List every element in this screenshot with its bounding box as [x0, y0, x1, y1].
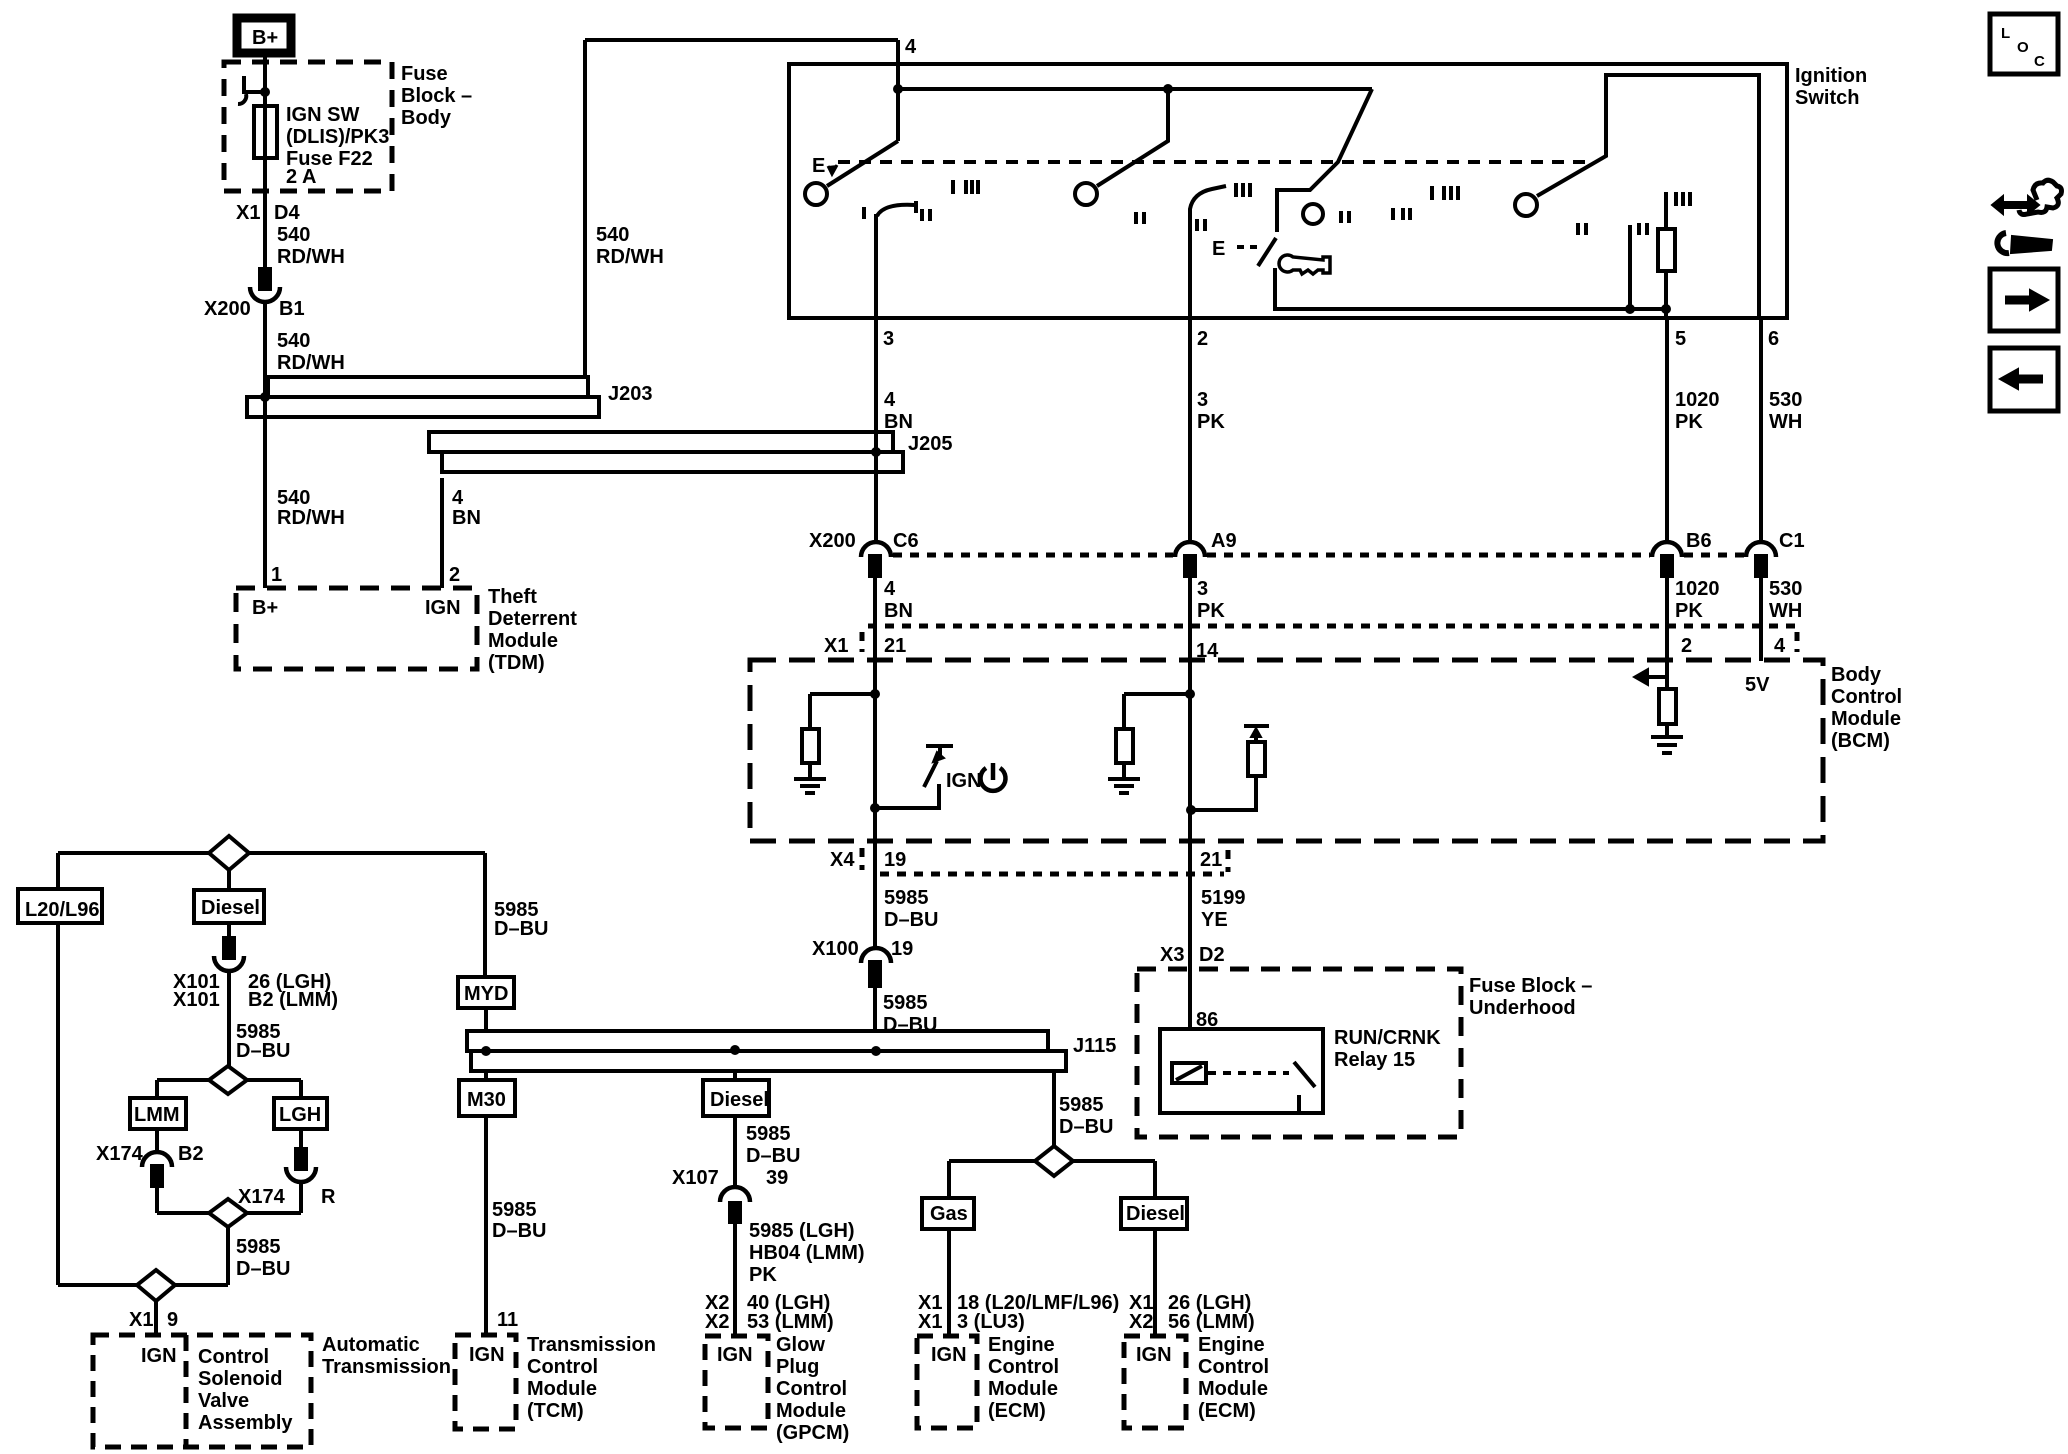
svg-text:2: 2	[449, 564, 460, 586]
svg-text:R: R	[321, 1186, 336, 1208]
svg-text:D–BU: D–BU	[883, 1014, 937, 1036]
svg-text:IGN: IGN	[141, 1345, 177, 1367]
svg-text:Theft: Theft	[488, 586, 537, 608]
svg-text:B1: B1	[279, 298, 305, 320]
svg-text:PK: PK	[1197, 411, 1225, 433]
svg-text:(TDM): (TDM)	[488, 652, 545, 674]
svg-text:Module: Module	[776, 1400, 846, 1422]
svg-text:21: 21	[884, 635, 906, 657]
svg-text:Deterrent: Deterrent	[488, 608, 577, 630]
svg-text:WH: WH	[1769, 600, 1802, 622]
svg-text:Relay 15: Relay 15	[1334, 1049, 1415, 1071]
svg-text:E: E	[1212, 238, 1225, 260]
svg-text:3: 3	[1197, 578, 1208, 600]
svg-text:Fuse Block –: Fuse Block –	[1469, 975, 1592, 997]
svg-text:39: 39	[766, 1167, 788, 1189]
svg-text:5985: 5985	[492, 1199, 537, 1221]
svg-text:Module: Module	[988, 1378, 1058, 1400]
svg-text:Module: Module	[527, 1378, 597, 1400]
svg-text:RD/WH: RD/WH	[596, 246, 664, 268]
svg-text:J203: J203	[608, 383, 653, 405]
svg-text:X101: X101	[173, 989, 220, 1011]
svg-text:Control: Control	[1831, 686, 1902, 708]
svg-text:4: 4	[884, 578, 896, 600]
svg-text:C6: C6	[893, 530, 919, 552]
svg-text:MYD: MYD	[464, 983, 508, 1005]
svg-text:Engine: Engine	[1198, 1334, 1265, 1356]
svg-text:5985: 5985	[746, 1123, 791, 1145]
svg-text:(GPCM): (GPCM)	[776, 1422, 849, 1444]
svg-text:Control: Control	[1198, 1356, 1269, 1378]
svg-text:X2: X2	[1129, 1311, 1153, 1333]
svg-text:Block –: Block –	[401, 85, 472, 107]
svg-text:Switch: Switch	[1795, 87, 1859, 109]
svg-text:X100: X100	[812, 938, 859, 960]
svg-text:HB04 (LMM): HB04 (LMM)	[749, 1242, 865, 1264]
svg-text:X2: X2	[705, 1311, 729, 1333]
svg-text:M30: M30	[467, 1089, 506, 1111]
svg-text:B6: B6	[1686, 530, 1712, 552]
svg-text:540: 540	[277, 487, 310, 509]
svg-text:IGN: IGN	[1136, 1344, 1172, 1366]
svg-text:14: 14	[1196, 640, 1219, 662]
svg-text:1: 1	[271, 564, 282, 586]
svg-text:X1: X1	[129, 1309, 153, 1331]
svg-text:530: 530	[1769, 578, 1802, 600]
svg-text:RD/WH: RD/WH	[277, 352, 345, 374]
svg-text:Body: Body	[1831, 664, 1882, 686]
svg-text:RD/WH: RD/WH	[277, 507, 345, 529]
svg-text:IGN: IGN	[931, 1344, 967, 1366]
svg-text:56 (LMM): 56 (LMM)	[1168, 1311, 1255, 1333]
svg-text:(ECM): (ECM)	[988, 1400, 1046, 1422]
svg-text:5199: 5199	[1201, 887, 1246, 909]
svg-text:Plug: Plug	[776, 1356, 819, 1378]
svg-text:X174: X174	[238, 1186, 286, 1208]
svg-text:X4: X4	[830, 849, 855, 871]
svg-text:Valve: Valve	[198, 1390, 249, 1412]
svg-text:21: 21	[1200, 849, 1222, 871]
svg-text:(ECM): (ECM)	[1198, 1400, 1256, 1422]
svg-text:IGN: IGN	[469, 1344, 505, 1366]
svg-text:IGN SW: IGN SW	[286, 104, 359, 126]
svg-text:4: 4	[1774, 635, 1786, 657]
svg-text:540: 540	[277, 330, 310, 352]
svg-text:X174: X174	[96, 1143, 144, 1165]
svg-text:X3: X3	[1160, 944, 1184, 966]
svg-text:Transmission: Transmission	[527, 1334, 656, 1356]
svg-text:IGN: IGN	[717, 1344, 753, 1366]
svg-text:D4: D4	[274, 202, 300, 224]
svg-text:530: 530	[1769, 389, 1802, 411]
svg-text:9: 9	[167, 1309, 178, 1331]
svg-text:X1: X1	[236, 202, 260, 224]
svg-text:Automatic: Automatic	[322, 1334, 420, 1356]
svg-text:J205: J205	[908, 433, 953, 455]
svg-text:D–BU: D–BU	[1059, 1116, 1113, 1138]
svg-text:D–BU: D–BU	[492, 1220, 546, 1242]
svg-text:4: 4	[452, 487, 464, 509]
svg-text:B+: B+	[252, 597, 278, 619]
svg-text:D–BU: D–BU	[494, 918, 548, 940]
svg-text:Engine: Engine	[988, 1334, 1055, 1356]
svg-text:IGN: IGN	[425, 597, 461, 619]
svg-text:540: 540	[277, 224, 310, 246]
svg-text:3: 3	[883, 328, 894, 350]
svg-text:Fuse: Fuse	[401, 63, 448, 85]
svg-text:Control: Control	[527, 1356, 598, 1378]
svg-text:C: C	[2034, 53, 2045, 70]
svg-text:Diesel: Diesel	[1126, 1203, 1185, 1225]
svg-text:PK: PK	[1675, 411, 1703, 433]
svg-text:LGH: LGH	[279, 1104, 321, 1126]
svg-text:D–BU: D–BU	[746, 1145, 800, 1167]
svg-text:Transmission: Transmission	[322, 1356, 451, 1378]
svg-text:Module: Module	[1831, 708, 1901, 730]
svg-text:19: 19	[891, 938, 913, 960]
svg-text:2: 2	[1197, 328, 1208, 350]
svg-text:Ignition: Ignition	[1795, 65, 1867, 87]
svg-text:X200: X200	[809, 530, 856, 552]
svg-text:D2: D2	[1199, 944, 1225, 966]
svg-text:5985: 5985	[236, 1236, 281, 1258]
svg-text:1020: 1020	[1675, 389, 1720, 411]
svg-text:L: L	[2001, 25, 2010, 42]
svg-text:A9: A9	[1211, 530, 1237, 552]
svg-text:J115: J115	[1073, 1035, 1116, 1057]
svg-text:D–BU: D–BU	[884, 909, 938, 931]
svg-text:86: 86	[1196, 1009, 1218, 1031]
svg-text:X200: X200	[204, 298, 251, 320]
svg-text:19: 19	[884, 849, 906, 871]
svg-text:B2 (LMM): B2 (LMM)	[248, 989, 338, 1011]
svg-text:1020: 1020	[1675, 578, 1720, 600]
svg-text:Diesel: Diesel	[710, 1089, 769, 1111]
svg-text:RUN/CRNK: RUN/CRNK	[1334, 1027, 1441, 1049]
svg-text:Body: Body	[401, 107, 452, 129]
svg-text:5985: 5985	[884, 887, 929, 909]
svg-text:11: 11	[497, 1309, 518, 1331]
svg-text:X1: X1	[824, 635, 848, 657]
svg-text:PK: PK	[749, 1264, 777, 1286]
svg-text:LMM: LMM	[134, 1104, 180, 1126]
svg-text:D–BU: D–BU	[236, 1040, 290, 1062]
svg-text:Glow: Glow	[776, 1334, 825, 1356]
svg-text:4: 4	[905, 36, 917, 58]
svg-text:6: 6	[1768, 328, 1779, 350]
svg-text:RD/WH: RD/WH	[277, 246, 345, 268]
svg-text:C1: C1	[1779, 530, 1805, 552]
svg-text:2: 2	[1681, 635, 1692, 657]
svg-text:Control: Control	[988, 1356, 1059, 1378]
svg-text:D–BU: D–BU	[236, 1258, 290, 1280]
svg-text:3 (LU3): 3 (LU3)	[957, 1311, 1025, 1333]
svg-text:(DLIS)/PK3: (DLIS)/PK3	[286, 126, 389, 148]
svg-text:53 (LMM): 53 (LMM)	[747, 1311, 834, 1333]
svg-text:YE: YE	[1201, 909, 1228, 931]
svg-text:X1: X1	[918, 1311, 942, 1333]
svg-text:B+: B+	[252, 27, 278, 49]
svg-text:Diesel: Diesel	[201, 897, 260, 919]
svg-text:E: E	[812, 155, 825, 177]
svg-text:5V: 5V	[1745, 674, 1770, 696]
svg-text:Gas: Gas	[930, 1203, 968, 1225]
svg-text:Control: Control	[198, 1346, 269, 1368]
svg-text:B2: B2	[178, 1143, 204, 1165]
svg-text:3: 3	[1197, 389, 1208, 411]
svg-text:(TCM): (TCM)	[527, 1400, 584, 1422]
svg-text:L20/L96: L20/L96	[25, 899, 99, 921]
svg-text:Assembly: Assembly	[198, 1412, 293, 1434]
svg-text:5985: 5985	[1059, 1094, 1104, 1116]
svg-text:BN: BN	[884, 600, 913, 622]
svg-text:5985: 5985	[883, 992, 928, 1014]
svg-text:5: 5	[1675, 328, 1686, 350]
svg-text:Solenoid: Solenoid	[198, 1368, 282, 1390]
svg-text:X107: X107	[672, 1167, 719, 1189]
svg-text:4: 4	[884, 389, 896, 411]
svg-text:5985 (LGH): 5985 (LGH)	[749, 1220, 855, 1242]
svg-text:IGN: IGN	[946, 770, 982, 792]
svg-text:PK: PK	[1197, 600, 1225, 622]
svg-text:(BCM): (BCM)	[1831, 730, 1890, 752]
svg-text:O: O	[2017, 39, 2029, 56]
svg-text:Module: Module	[488, 630, 558, 652]
svg-text:WH: WH	[1769, 411, 1802, 433]
svg-text:Underhood: Underhood	[1469, 997, 1576, 1019]
svg-text:Module: Module	[1198, 1378, 1268, 1400]
svg-text:BN: BN	[884, 411, 913, 433]
svg-text:2 A: 2 A	[286, 166, 316, 188]
svg-text:BN: BN	[452, 507, 481, 529]
svg-text:Control: Control	[776, 1378, 847, 1400]
svg-text:PK: PK	[1675, 600, 1703, 622]
svg-text:540: 540	[596, 224, 629, 246]
